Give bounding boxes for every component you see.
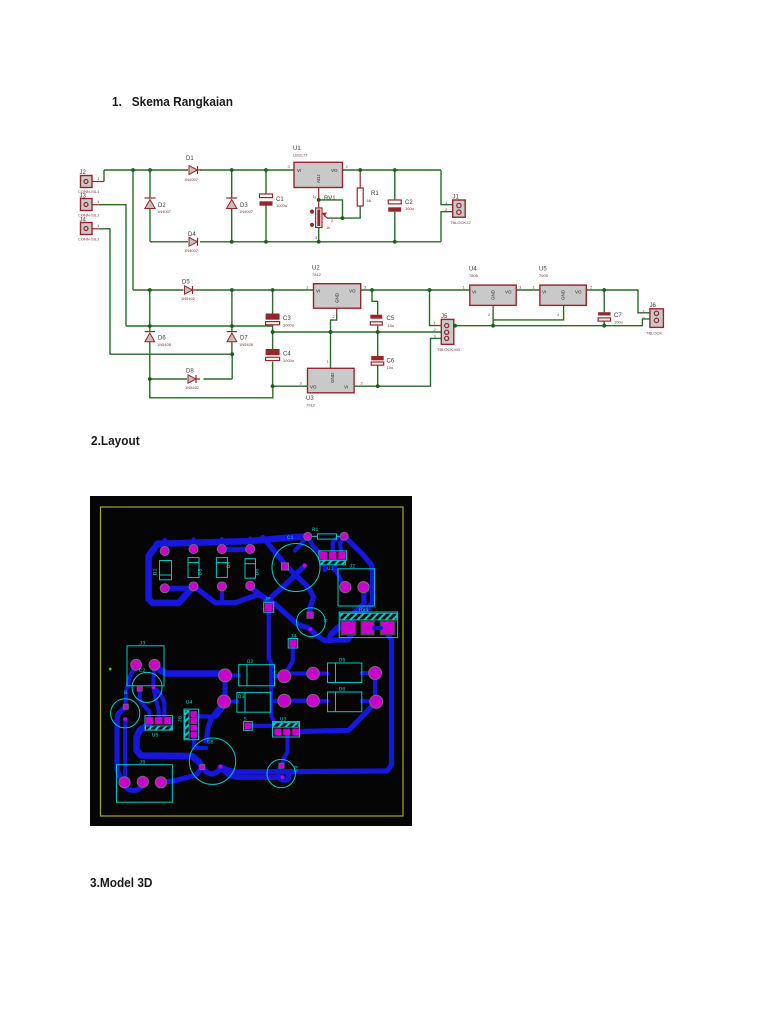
connector J3: [78, 194, 100, 218]
wire D6 branch: [149, 290, 151, 331]
svg-text:U5: U5: [539, 267, 547, 273]
wire big pad to C8: [207, 702, 225, 742]
wire D6 pad diagonal to U3: [299, 702, 376, 732]
wire D6 pad to M: [250, 587, 308, 628]
svg-text:U1: U1: [327, 565, 334, 572]
svg-text:1000u: 1000u: [283, 358, 294, 363]
wire JP vertical: [269, 611, 278, 726]
diode D4 footprint: [216, 545, 232, 591]
diode D8 footprint: [188, 545, 204, 591]
svg-text:1: 1: [97, 176, 100, 181]
wire GND rail R2: [273, 331, 442, 333]
wire J2 left pad up to U1: [334, 562, 345, 588]
svg-text:2: 2: [333, 314, 336, 319]
pad J4: [288, 633, 298, 649]
heading 2: [91, 433, 140, 448]
transistor Q2 circle: [124, 667, 162, 702]
junction at 318.7,241.8: [317, 240, 321, 244]
svg-text:C9: C9: [293, 765, 300, 772]
svg-text:1N4007: 1N4007: [184, 248, 199, 253]
junction at 133,170: [131, 168, 135, 172]
wire R1 right diagonals: [330, 536, 373, 640]
wire U3 VO row: [273, 385, 308, 387]
svg-text:D5: D5: [182, 280, 190, 286]
capacitor C2: [388, 170, 414, 242]
wire big pads vertical: [223, 675, 228, 701]
wire Q2 pads to U5: [140, 689, 150, 717]
diode D6 footprint: [245, 545, 261, 591]
wire D2 row1: [225, 673, 375, 676]
junction at 149.8,326: [148, 324, 152, 328]
IC U5 footprint: [145, 716, 172, 739]
svg-text:VI: VI: [297, 168, 301, 173]
wire D1 bottom link: [165, 586, 193, 591]
wire J4 pad down to D2: [284, 646, 293, 676]
svg-text:1N5402: 1N5402: [181, 296, 196, 301]
capacitor C1 footprint: [272, 534, 320, 592]
svg-text:2: 2: [488, 312, 491, 317]
wire C8 inner link: [202, 767, 220, 774]
pad JP: [264, 596, 274, 613]
svg-text:D4: D4: [188, 232, 196, 238]
svg-text:J2: J2: [349, 563, 356, 570]
junction at 372,290: [370, 288, 374, 292]
PCB layout: [90, 496, 412, 826]
svg-text:RV1: RV1: [324, 196, 336, 202]
svg-text:1: 1: [533, 285, 536, 290]
svg-text:D2: D2: [247, 658, 254, 665]
wire U4 U5 GND: [493, 305, 563, 310]
svg-text:D5: D5: [339, 657, 346, 664]
svg-text:C2: C2: [139, 667, 146, 674]
circuit schematic: [70, 130, 690, 420]
wire U1 left pad to R1: [308, 536, 323, 555]
svg-text:3: 3: [364, 285, 367, 290]
svg-text:D7: D7: [240, 336, 248, 342]
svg-text:2: 2: [346, 164, 349, 169]
wire J2 to top rail: [103, 170, 105, 182]
diode D2: [145, 170, 172, 242]
svg-text:J1: J1: [453, 195, 460, 201]
junction at 429.5,290: [428, 288, 432, 292]
wire C8 right pad to C9 row: [221, 767, 283, 778]
capacitor C1: [260, 170, 288, 242]
wire U3 GND: [330, 332, 332, 368]
capacitor C6: [371, 332, 395, 386]
regulator U1: [288, 146, 349, 199]
heading 1: [112, 94, 233, 109]
svg-text:GND: GND: [561, 289, 566, 300]
wire S pad to U3: [251, 724, 273, 728]
svg-text:1: 1: [463, 285, 466, 290]
connector J5: [434, 314, 461, 352]
wire U1 ADJ: [318, 188, 320, 200]
wire C1 leg to M: [263, 538, 314, 614]
svg-text:1000u: 1000u: [276, 203, 287, 208]
pot RV1: [310, 195, 343, 242]
svg-text:3: 3: [300, 381, 303, 386]
svg-text:JP: JP: [264, 596, 271, 603]
svg-text:3: 3: [519, 285, 522, 290]
svg-text:R1: R1: [312, 526, 319, 533]
svg-text:1: 1: [327, 359, 330, 364]
diode D3 footprint: [237, 692, 320, 712]
connector J6: [643, 303, 664, 336]
junction at 149.8,379: [148, 377, 152, 381]
junction at 231.7,241.8: [230, 240, 234, 244]
junction at 330.5,332: [329, 330, 333, 334]
svg-text:U3: U3: [306, 396, 314, 402]
svg-text:D3: D3: [238, 693, 245, 700]
svg-text:10u: 10u: [387, 365, 394, 370]
connector J2: [78, 170, 104, 194]
resistor R1 footprint: [304, 526, 349, 540]
resistor R1: [343, 170, 380, 218]
svg-text:VI: VI: [344, 385, 348, 390]
diode D6b footprint: [328, 686, 383, 712]
capacitor C3: [266, 290, 295, 332]
svg-text:D8: D8: [186, 369, 194, 375]
svg-text:VI: VI: [316, 289, 320, 294]
wire lower rail A: [133, 290, 650, 313]
svg-text:LM317T: LM317T: [293, 153, 308, 158]
diode D1: [184, 156, 202, 182]
junction at 342.5,218.1: [341, 216, 345, 220]
capacitor C7: [598, 290, 623, 326]
wire J3 pad2 to D2 big pad: [155, 665, 226, 676]
wire bottom left rail: [150, 379, 273, 398]
junction at 377.7,386.2: [376, 384, 380, 388]
wire U3 mid pad to C9: [282, 736, 288, 766]
junction at 149.8,290: [148, 288, 152, 292]
IC U4 footprint: [177, 699, 199, 740]
wire J5 inner link: [125, 782, 143, 791]
diode D2 footprint: [239, 658, 320, 686]
svg-text:7912: 7912: [306, 403, 316, 408]
wire J2 right pad to RV1: [331, 588, 364, 635]
wire D2 row2: [224, 701, 376, 702]
wire D7 branch: [231, 290, 233, 331]
svg-text:1N4007: 1N4007: [157, 209, 172, 214]
svg-text:1N5408: 1N5408: [239, 342, 254, 347]
junction at 150,170: [148, 168, 152, 172]
svg-text:J5: J5: [139, 759, 146, 766]
svg-text:1: 1: [314, 195, 317, 200]
connector J5 footprint: [117, 759, 173, 803]
svg-text:TBLOCK: TBLOCK: [646, 331, 662, 336]
svg-text:D4: D4: [225, 561, 232, 568]
regulator U4: [463, 267, 523, 318]
svg-text:1: 1: [434, 321, 437, 326]
junction at 604.2,325.7: [602, 324, 606, 328]
junction at 266,241.8: [264, 240, 268, 244]
wire GND rail right: [455, 319, 650, 326]
svg-text:VO: VO: [575, 290, 582, 295]
svg-text:D1: D1: [186, 156, 194, 162]
svg-text:VO: VO: [310, 385, 317, 390]
wire J3 down left vertical: [99, 205, 126, 326]
capacitor C4: [266, 332, 295, 386]
junction at 231.9,290: [230, 288, 234, 292]
junction at 232.2,354.2: [230, 352, 234, 356]
capacitor C8 circle: [189, 738, 235, 784]
svg-text:D6: D6: [339, 686, 346, 693]
svg-text:68: 68: [367, 198, 372, 203]
wire U5 left pad to C8: [137, 725, 203, 767]
svg-text:1k: 1k: [326, 225, 330, 230]
wire left loop to D8 pad: [149, 544, 193, 603]
motor M footprint: [297, 608, 330, 637]
wire C9 inner hook: [279, 766, 289, 780]
wire U4 pads right: [194, 703, 223, 716]
big pad row2 left: [219, 669, 232, 682]
diode D5: [181, 280, 196, 302]
connector J3 footprint: [127, 640, 164, 686]
wire D4-D6 top pads link: [222, 547, 250, 552]
wire U1 mid pad up: [333, 537, 338, 556]
svg-text:C7: C7: [614, 313, 622, 319]
svg-text:C5: C5: [387, 316, 395, 322]
svg-text:TBLOCK-M3: TBLOCK-M3: [437, 347, 461, 352]
connector J1: [445, 195, 471, 226]
svg-text:M: M: [323, 619, 330, 622]
svg-text:1: 1: [97, 199, 100, 204]
svg-text:U4: U4: [469, 267, 477, 273]
regulator U2: [306, 266, 367, 320]
svg-text:C1: C1: [287, 534, 294, 541]
svg-text:C4: C4: [283, 352, 291, 358]
diode D7: [227, 332, 254, 355]
svg-text:CONN-SIL1: CONN-SIL1: [78, 237, 100, 242]
wire J5 pin1 branch: [430, 290, 442, 326]
wire diode top stubs: [165, 539, 251, 552]
capacitor C9 circle: [267, 759, 300, 787]
svg-text:4: 4: [557, 312, 560, 317]
diode D3: [226, 170, 254, 242]
svg-text:2: 2: [590, 285, 593, 290]
wire U1 pads down: [325, 559, 334, 570]
regulator U3: [300, 359, 364, 408]
junction at 272.6,332: [271, 330, 275, 334]
wire RV1 pad link: [374, 626, 381, 630]
diode D4: [184, 232, 199, 253]
svg-text:U1: U1: [293, 146, 301, 152]
svg-text:1N5408: 1N5408: [157, 342, 172, 347]
svg-text:J3: J3: [139, 640, 146, 647]
wire Q1 bottom to J5: [122, 719, 127, 782]
wire J3 pad1 to Q1: [126, 665, 136, 707]
wire D7 to D8 row: [231, 354, 233, 379]
wire R1 left pad stub: [295, 536, 308, 550]
wire D8 row: [150, 378, 232, 380]
svg-text:ADJ: ADJ: [316, 174, 321, 183]
wire top rail to lower rail A: [132, 170, 134, 290]
svg-text:RV1: RV1: [359, 606, 370, 613]
IC U3 footprint: [273, 716, 300, 738]
wire RV1 right down long vertical: [221, 633, 392, 772]
svg-text:100u: 100u: [405, 206, 414, 211]
wire J5 pad3 to C8: [161, 767, 202, 782]
svg-text:D1: D1: [152, 568, 159, 575]
svg-text:2: 2: [434, 327, 437, 332]
svg-text:3: 3: [288, 164, 291, 169]
svg-text:7812: 7812: [312, 272, 322, 277]
wire L1 J3 rail: [126, 325, 273, 327]
diode D1 footprint: [152, 547, 172, 593]
junction at 604.2,290: [602, 288, 606, 292]
svg-text:1000u: 1000u: [283, 323, 294, 328]
svg-text:D6: D6: [158, 336, 166, 342]
wire Q1 pad to J5 pad1: [117, 707, 126, 783]
svg-text:7905: 7905: [539, 273, 549, 278]
svg-text:2: 2: [643, 316, 646, 321]
junction at 493.1,325.7: [491, 324, 495, 328]
svg-text:7805: 7805: [469, 273, 479, 278]
svg-text:1N4007: 1N4007: [184, 177, 199, 182]
connector J2 footprint: [338, 563, 374, 607]
svg-text:J6: J6: [177, 716, 184, 723]
svg-text:1: 1: [97, 223, 100, 228]
svg-text:TBLOCK-I2: TBLOCK-I2: [450, 220, 471, 225]
junction at 394.8,170: [393, 168, 397, 172]
junction at 231.9,326: [230, 324, 234, 328]
junction at 266,170: [264, 168, 268, 172]
big pad row2 left lower: [218, 695, 231, 708]
svg-text:J2: J2: [80, 170, 87, 176]
svg-text:1: 1: [306, 285, 309, 290]
pot RV1 footprint: [339, 606, 397, 638]
svg-text:J4: J4: [290, 633, 297, 640]
wire bottom rail top circuit: [150, 241, 441, 243]
transistor Q1 circle: [111, 699, 140, 728]
junction at 394.8,241.8: [393, 240, 397, 244]
wire D4 stub: [220, 587, 224, 603]
svg-text:U4: U4: [186, 699, 193, 706]
junction at 272.6,290: [271, 288, 275, 292]
wire D8-D4 bottom route to JP: [193, 586, 269, 604]
svg-text:U5: U5: [152, 732, 159, 739]
connector J4: [78, 218, 100, 242]
wire to J1: [441, 170, 453, 242]
svg-text:VI: VI: [472, 290, 476, 295]
svg-text:D6: D6: [254, 568, 261, 575]
pad S: [244, 716, 253, 731]
wire C1 leg to JP: [269, 566, 305, 604]
junction at 377.7,332: [376, 330, 380, 334]
junction at 231.7,170: [230, 168, 234, 172]
svg-text:GND: GND: [335, 292, 340, 303]
svg-text:10u: 10u: [388, 323, 395, 328]
svg-text:C3: C3: [283, 316, 291, 322]
svg-text:D8: D8: [197, 568, 204, 575]
svg-text:U2: U2: [312, 266, 320, 272]
diode D8: [185, 369, 200, 391]
diode D5 footprint: [328, 657, 382, 683]
wire J4 down vertical: [99, 229, 232, 354]
svg-text:1N5402: 1N5402: [185, 385, 200, 390]
svg-text:R1: R1: [371, 191, 379, 197]
svg-text:J4: J4: [80, 218, 87, 224]
IC U1 footprint: [319, 551, 347, 572]
wire M bottom to RV1 route: [310, 629, 331, 641]
board outline yellow: [101, 507, 404, 816]
diode D6: [145, 332, 172, 379]
heading 3: [90, 875, 152, 890]
svg-text:C8: C8: [207, 739, 214, 746]
svg-text:3: 3: [315, 235, 318, 240]
svg-text:U3: U3: [280, 716, 287, 723]
svg-text:2: 2: [361, 381, 364, 386]
junction at 360.2,170: [358, 168, 362, 172]
wire J3 pad2 to Q2 pad: [153, 665, 154, 688]
wire right pads vertical: [373, 673, 377, 702]
green origin dot: [109, 668, 112, 671]
svg-text:VO: VO: [505, 290, 512, 295]
wire top rail: [104, 169, 441, 171]
svg-text:J3: J3: [80, 194, 87, 200]
svg-text:GND: GND: [491, 289, 496, 300]
svg-text:J6: J6: [650, 303, 657, 309]
svg-text:J5: J5: [441, 314, 448, 320]
wire U2 GND jog: [336, 308, 338, 314]
svg-text:C6: C6: [387, 359, 395, 365]
wire U3 VI row: [354, 338, 441, 386]
svg-text:VO: VO: [349, 289, 356, 294]
regulator U5: [533, 267, 594, 318]
svg-text:100u: 100u: [614, 320, 623, 325]
svg-text:VI: VI: [542, 290, 546, 295]
svg-text:GND: GND: [330, 372, 335, 383]
svg-text:VO: VO: [331, 168, 338, 173]
wire trace top band: [158, 537, 306, 544]
capacitor C5: [370, 290, 395, 332]
junction at 272.6,386.2: [271, 384, 275, 388]
svg-text:1N4007: 1N4007: [239, 209, 254, 214]
junction at 318.7,199.9: [317, 198, 321, 202]
